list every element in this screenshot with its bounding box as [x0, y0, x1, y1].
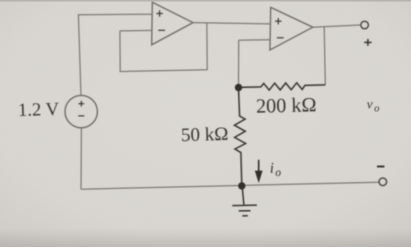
node A junction dot (top): [235, 84, 242, 91]
wire U2 inverting input: [239, 39, 270, 42]
voltage source minus mark: [78, 115, 84, 117]
resistor R2 200 kOhm (horizontal): [239, 83, 326, 90]
wire feedback right vertical: [324, 27, 325, 85]
op-amp U1 plus input mark: [156, 10, 162, 16]
op-amp U2 plus input mark: [275, 18, 281, 24]
wire U1 output to U2 + input: [193, 23, 271, 24]
op-amp U1: [152, 2, 193, 45]
output terminal top (open circle): [361, 21, 369, 29]
wire bottom rail: [81, 182, 379, 189]
wire U1 feedback box: [120, 23, 207, 72]
op-amp U1 minus input mark: [158, 29, 165, 31]
op-amp U2: [270, 7, 313, 50]
wire U1 inverting input: [120, 29, 152, 32]
resistor R1 50 kOhm (vertical): [234, 88, 245, 186]
voltage source plus mark: [78, 101, 84, 107]
output terminal bottom (open circle): [379, 178, 387, 186]
wire U2 output to terminal: [313, 25, 361, 27]
current io arrow: [256, 160, 262, 181]
plus sign output polarity: [364, 39, 371, 46]
wire U2 inverting branch down to node: [238, 40, 240, 87]
wire source top to U1 + input: [78, 14, 152, 95]
ground: [232, 187, 257, 216]
op-amp U2 minus input mark: [277, 37, 284, 39]
voltage source V1 circle: [65, 95, 97, 127]
wire source bottom to bottom rail: [80, 128, 82, 190]
node B junction dot (bottom): [238, 182, 245, 189]
minus sign output polarity: [377, 166, 384, 168]
